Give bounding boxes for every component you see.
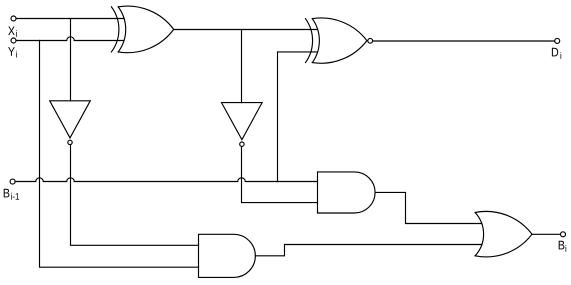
- inverter NOT1: [50, 101, 91, 145]
- wire Bi-1 branch up to XNOR2 bottom input: [278, 52, 318, 182]
- wire node A drop from Xi line to NOT1: [70, 19, 72, 101]
- output terminal Bi: [561, 232, 566, 237]
- label Yi: [8, 47, 17, 57]
- and gate AND2: [199, 234, 256, 277]
- xor gate XOR1: [111, 6, 173, 53]
- output terminal Di: [555, 38, 560, 43]
- wire Xi to XOR1 input: [16, 18, 124, 20]
- or gate OR1: [475, 211, 532, 256]
- label Bi: [559, 241, 567, 252]
- wire Yi drop to AND2 lower input: [40, 41, 199, 268]
- wire AND1 output to OR1 top input: [375, 192, 481, 223]
- input terminal Yi: [11, 38, 16, 43]
- wire OR1 output to Bi: [532, 233, 560, 235]
- wire NOT1 output to AND2 top input: [71, 145, 199, 245]
- input terminal Xi: [11, 16, 16, 21]
- input terminal Bi-1: [10, 179, 15, 184]
- wire Bi-1 bus with hops: [15, 178, 317, 182]
- xnor gate XNOR2: [306, 18, 373, 63]
- wire XNOR2 output to Di: [373, 40, 554, 42]
- wire XOR1 output to XNOR2 top input: [174, 29, 318, 31]
- wire NOT2 output to AND1 bottom input: [242, 147, 318, 203]
- label Di: [552, 48, 561, 59]
- label Bi-1: [4, 189, 19, 200]
- inverter NOT2: [222, 103, 263, 147]
- wire Yi to XOR1 input with hop over vertical: [16, 37, 124, 41]
- wire AND2 output to OR1 bottom input: [255, 245, 482, 256]
- label Xi: [8, 27, 17, 37]
- wire node B drop from XOR1 output to NOT2: [241, 30, 243, 103]
- and gate AND1: [318, 172, 376, 213]
